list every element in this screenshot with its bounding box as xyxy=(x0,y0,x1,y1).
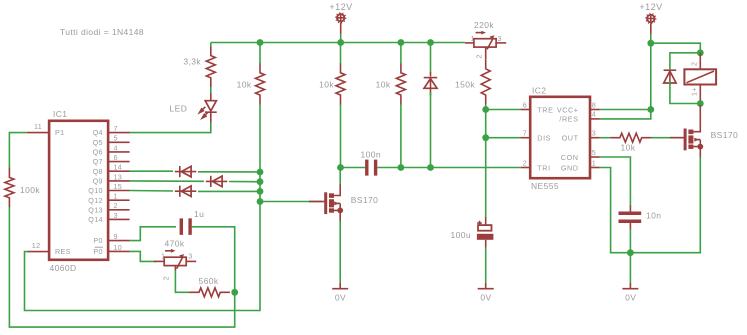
pin Q8 (14) of IC1 xyxy=(93,163,130,176)
svg-text:1u: 1u xyxy=(194,209,204,219)
diode D3 xyxy=(175,186,197,197)
pin DIS (7) of IC2 xyxy=(521,129,551,143)
svg-text:6: 6 xyxy=(114,153,118,162)
wire D2 to node xyxy=(229,181,260,183)
node rail junction 10k right xyxy=(398,39,405,46)
op-amp IC2 NE555 body xyxy=(530,86,590,192)
svg-text:100n: 100n xyxy=(361,150,382,160)
svg-text:BS170: BS170 xyxy=(711,130,739,140)
pin TRI (2) of IC2 xyxy=(521,158,551,172)
node +12V P2 junction xyxy=(647,40,654,47)
pin RES (12) of IC1 xyxy=(28,241,71,256)
svg-text:11: 11 xyxy=(34,122,42,131)
wire +12V P2 to node xyxy=(650,34,652,44)
diode D2 xyxy=(206,176,228,187)
trimmer 470k xyxy=(154,239,196,281)
wire 10k middle to 100n node xyxy=(340,104,342,167)
ground 0V (right) xyxy=(622,283,638,303)
diode D4 (vertical, cathode up) xyxy=(424,43,438,96)
wire P1 to 100k xyxy=(9,133,26,169)
node 10k right bottom xyxy=(398,164,405,171)
svg-text:Q9: Q9 xyxy=(93,177,103,186)
wire DIS node to pin 7 xyxy=(486,137,521,139)
svg-text:150k: 150k xyxy=(455,80,475,90)
svg-text:TRE: TRE xyxy=(537,105,553,114)
svg-text:Q4: Q4 xyxy=(93,128,103,137)
LED xyxy=(170,93,217,123)
node DIS junction xyxy=(482,134,489,141)
wire flyback diode bottom to relay bottom xyxy=(670,81,700,104)
svg-text:1+: 1+ xyxy=(692,87,699,96)
wire D1 to node xyxy=(198,171,260,173)
wire 10k down diode-junction column to RES return xyxy=(25,104,261,310)
wire P0 pin9 to 1u xyxy=(129,227,176,241)
svg-text:2: 2 xyxy=(523,158,527,167)
svg-text:CON: CON xyxy=(561,153,579,162)
node gate junction xyxy=(257,198,264,205)
svg-text:3,3k: 3,3k xyxy=(183,57,201,67)
wire LED to IC1 pin 7 (Q4) xyxy=(129,123,210,133)
node rail junction 10k left xyxy=(257,39,264,46)
svg-text:BS170: BS170 xyxy=(351,195,379,205)
op-amp IC1 4060D body xyxy=(49,109,108,273)
node BS170 source/bulk xyxy=(337,208,343,214)
pin Q6 (4) of IC1 xyxy=(93,143,130,156)
capacitor 100n xyxy=(361,150,382,176)
resistor 10k (middle) xyxy=(319,63,345,104)
node diode bottom xyxy=(427,164,434,171)
node BS170-2 source/bulk xyxy=(697,144,703,150)
trimmer 220k xyxy=(465,20,506,59)
svg-text:10k: 10k xyxy=(319,79,334,89)
wire 10k right to trigger net xyxy=(400,104,402,167)
wire rail to 10k xyxy=(259,43,261,64)
svg-text:P0: P0 xyxy=(93,236,102,245)
supply +12V P1 xyxy=(329,2,352,34)
pin Q12 (1) of IC1 xyxy=(88,192,129,205)
svg-text:Q10: Q10 xyxy=(88,186,103,195)
pin Q7 (6) of IC1 xyxy=(93,153,130,166)
svg-text:GND: GND xyxy=(561,163,579,172)
svg-text:0V: 0V xyxy=(480,293,491,303)
diode D1 xyxy=(175,166,197,177)
wire trigger net xyxy=(341,167,366,169)
wire 100u to ground xyxy=(485,247,487,283)
svg-text:100k: 100k xyxy=(20,185,40,195)
pin Q9 (13) of IC1 xyxy=(93,172,130,185)
node Q10 junction xyxy=(257,188,264,195)
svg-text:+12V: +12V xyxy=(329,2,352,12)
svg-text:LED: LED xyxy=(170,103,188,113)
svg-text:2: 2 xyxy=(692,62,699,66)
svg-text:3: 3 xyxy=(592,129,596,138)
wire rail to 10k middle xyxy=(340,43,342,64)
svg-text:+12V: +12V xyxy=(639,2,662,12)
svg-text:560k: 560k xyxy=(199,276,219,286)
capacitor 100u polarized xyxy=(451,217,494,248)
node rail junction +12V xyxy=(337,39,344,46)
svg-text:2: 2 xyxy=(114,201,118,210)
svg-text:1: 1 xyxy=(471,34,475,43)
svg-text:10k: 10k xyxy=(621,143,636,153)
pin P1 (11) of IC1 xyxy=(27,122,65,137)
supply +12V P2 xyxy=(639,2,662,34)
svg-text:0V: 0V xyxy=(625,293,636,303)
wire TRE/DIS column to 100u xyxy=(485,110,487,218)
svg-text:Q5: Q5 xyxy=(93,138,103,147)
wire 10n to node xyxy=(629,229,631,253)
svg-text:3: 3 xyxy=(188,252,192,261)
node 560k/1u junction xyxy=(231,289,238,296)
svg-text:12: 12 xyxy=(32,241,41,250)
svg-text:Q13: Q13 xyxy=(88,205,103,214)
wire 150k to TRE node xyxy=(485,104,487,109)
svg-text:5: 5 xyxy=(592,148,596,157)
capacitor 10n xyxy=(619,206,662,230)
svg-text:Q8: Q8 xyxy=(93,167,103,176)
svg-text:220k: 220k xyxy=(474,20,494,30)
svg-text:4: 4 xyxy=(114,143,118,152)
svg-text:10n: 10n xyxy=(646,211,661,221)
svg-text:/RES: /RES xyxy=(559,115,578,124)
svg-text:5: 5 xyxy=(114,134,118,143)
svg-text:1: 1 xyxy=(592,158,596,167)
pin P0 (10) of IC1 xyxy=(93,243,129,256)
pin /RES (4) of IC2 xyxy=(559,110,599,124)
svg-text:Q14: Q14 xyxy=(88,215,103,224)
svg-text:TRI: TRI xyxy=(537,163,550,172)
wire 10k to BS170 gate xyxy=(651,137,684,139)
node relay bottom junction xyxy=(697,100,704,107)
wire BS170-2 source to 10n node xyxy=(630,157,700,252)
resistor 150k xyxy=(455,51,490,105)
wire +12V node down to VCC node xyxy=(650,43,652,109)
node relay top junction xyxy=(697,49,704,56)
svg-text:Q6: Q6 xyxy=(93,148,103,157)
node Q9 junction xyxy=(257,178,264,185)
svg-text:IC2: IC2 xyxy=(532,86,546,96)
svg-text:P0: P0 xyxy=(93,247,102,256)
svg-text:14: 14 xyxy=(114,163,123,172)
svg-text:2: 2 xyxy=(164,276,171,280)
wire /RES pin 4 to VCC node xyxy=(599,110,651,119)
svg-text:P1: P1 xyxy=(55,128,64,137)
pin VCC+ (8) of IC2 xyxy=(557,100,600,114)
node rail junction diode xyxy=(427,39,434,46)
resistor 10k (output) xyxy=(610,133,651,152)
pin GND (1) of IC2 xyxy=(561,158,600,172)
relay K1 coil xyxy=(684,53,716,104)
svg-text:4060D: 4060D xyxy=(50,263,77,273)
wire to flyback diode top xyxy=(670,53,700,70)
wire Q10 to diode D3 xyxy=(129,190,173,193)
svg-text:7: 7 xyxy=(114,124,118,133)
svg-text:3: 3 xyxy=(114,211,118,220)
svg-text:Tutti diodi = 1N4148: Tutti diodi = 1N4148 xyxy=(60,27,144,37)
pin OUT (3) of IC2 xyxy=(562,129,600,143)
wire +12V node to relay column xyxy=(651,43,701,53)
pin Q5 (5) of IC1 xyxy=(93,134,130,147)
svg-text:1: 1 xyxy=(161,252,165,261)
pin CON (5) of IC2 xyxy=(561,148,600,162)
svg-text:10k: 10k xyxy=(237,79,252,89)
wire from +12V P1 to rail xyxy=(340,34,342,43)
svg-text:100u: 100u xyxy=(451,230,472,240)
node 100n left xyxy=(337,164,344,171)
wire 1u to 560k node xyxy=(192,227,235,292)
wire 100n to TRI xyxy=(377,167,521,169)
svg-text:OUT: OUT xyxy=(562,134,579,143)
diode flyback (cathode up) xyxy=(664,70,677,84)
wire 100k to bottom rail xyxy=(9,207,234,327)
svg-text:DIS: DIS xyxy=(537,134,551,143)
svg-text:2: 2 xyxy=(477,54,484,58)
wire CON pin5 to 10n xyxy=(599,157,630,206)
resistor 100k xyxy=(5,168,40,208)
pin P0 (9) of IC1 xyxy=(93,232,129,245)
wire P0 pin10 to 470k xyxy=(129,251,156,261)
wire TRE node to pin 6 xyxy=(486,109,521,111)
svg-text:10k: 10k xyxy=(376,79,391,89)
svg-text:15: 15 xyxy=(114,182,123,191)
svg-text:0V: 0V xyxy=(335,293,346,303)
node TRE junction xyxy=(482,106,489,113)
svg-text:RES: RES xyxy=(55,247,71,256)
pin Q13 (2) of IC1 xyxy=(88,201,129,214)
svg-text:7: 7 xyxy=(523,129,527,138)
pin Q14 (3) of IC1 xyxy=(88,211,129,224)
node Q8 junction xyxy=(257,169,264,176)
ground 0V (left) xyxy=(332,283,348,303)
svg-text:8: 8 xyxy=(592,100,596,109)
resistor 3,3k xyxy=(183,46,215,87)
svg-text:Q12: Q12 xyxy=(88,196,103,205)
wire OUT pin3 to 10k xyxy=(599,137,610,139)
wire D3 to node xyxy=(198,190,260,192)
wire BS170 drain to 100n node xyxy=(339,168,341,185)
resistor 560k xyxy=(189,276,230,297)
wire 470k wiper to 560k xyxy=(175,270,190,292)
resistor 10k (left) xyxy=(237,63,265,104)
wire VCC node to pin 8 xyxy=(599,109,651,111)
transistor Q2 BS170 xyxy=(670,105,738,158)
svg-text:VCC+: VCC+ xyxy=(557,105,579,114)
pin TRE (6) of IC2 xyxy=(521,100,554,114)
wire rail corner down to 3,3k xyxy=(210,43,212,47)
wire Q8 to diode D1 xyxy=(129,170,173,172)
svg-text:Q7: Q7 xyxy=(93,157,103,166)
wire diode to trigger net xyxy=(430,92,432,168)
svg-text:4: 4 xyxy=(592,110,596,119)
svg-text:NE555: NE555 xyxy=(531,181,559,191)
wire gate net to BS170 xyxy=(260,201,322,203)
resistor 10k (right) xyxy=(376,63,406,104)
wire GND pin1 to 10n node xyxy=(599,168,630,253)
wire node to ground xyxy=(629,253,631,284)
svg-text:10: 10 xyxy=(114,243,123,252)
svg-text:3: 3 xyxy=(498,34,502,43)
svg-text:1: 1 xyxy=(114,192,118,201)
svg-text:470k: 470k xyxy=(165,239,185,249)
wire Q9 to diode D2 xyxy=(129,180,204,182)
pin Q10 (15) of IC1 xyxy=(88,182,129,195)
svg-text:13: 13 xyxy=(114,172,123,181)
svg-text:6: 6 xyxy=(523,100,527,109)
capacitor 1u xyxy=(181,209,204,235)
wire BS170 source to ground xyxy=(339,221,341,283)
wire 3,3k to LED xyxy=(210,87,212,94)
svg-text:9: 9 xyxy=(114,232,118,241)
wire: +12V top rail xyxy=(211,42,465,44)
pin Q4 (7) of IC1 xyxy=(93,124,130,137)
svg-text:IC1: IC1 xyxy=(53,109,67,119)
ground 0V (middle) xyxy=(478,283,494,303)
transistor Q1 BS170 xyxy=(309,184,378,222)
node 10n ground junction xyxy=(627,249,634,256)
node VCC junction xyxy=(647,106,654,113)
